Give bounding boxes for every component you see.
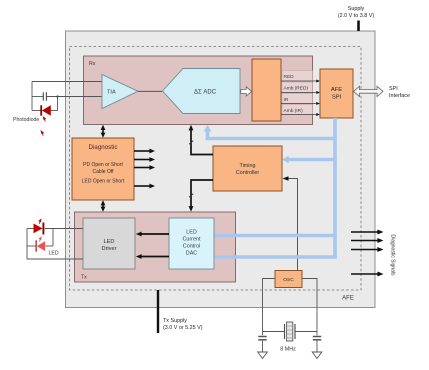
bus slash tick [189,141,193,145]
LED Current Control DAC block [169,218,214,269]
wire LED top rail [27,228,34,230]
svg-text:Photodiode: Photodiode [13,117,39,123]
wire timing to Rx [191,130,213,155]
Tx block [75,212,236,282]
blue arrow into ADC [204,125,212,132]
svg-text:Amb (IR): Amb (IR) [284,108,304,114]
wire photodiode right vertical [57,97,59,111]
wire Diagnostic to Tx double arrow [102,204,104,208]
svg-text:AFE: AFE [342,296,354,302]
svg-text:Diagnostic: Diagnostic [89,144,118,151]
op-amp TIA [102,75,138,109]
ground right [312,352,322,359]
register row IR [282,94,313,104]
svg-text:DAC: DAC [186,251,197,257]
wire TIA to ADC [138,90,163,92]
svg-text:(2.0 V to 3.8 V): (2.0 V to 3.8 V) [338,13,374,19]
svg-text:PD Open or Short: PD Open or Short [83,162,123,168]
register row Amb (RED) [282,82,313,93]
blue bus vertical [333,118,337,257]
svg-text:Interface: Interface [389,93,410,99]
svg-text:ΔΣ ADC: ΔΣ ADC [194,90,217,96]
Rx block [84,56,313,125]
Diagnostic block [72,138,134,200]
wire photodiode bottom lead [32,110,41,112]
svg-text:LED: LED [49,251,59,257]
node junction [56,95,58,97]
wire IR to SPI [281,103,318,105]
svg-text:Cable Off: Cable Off [92,169,114,175]
diagnostics signal arrow 4 [351,273,378,275]
diagnostics signal arrow 3 [351,249,378,251]
blue bus DAC branch 2 [215,255,337,259]
svg-text:Supply: Supply [348,6,365,12]
photodiode light arrows [41,117,45,136]
LED Driver block [83,218,135,269]
svg-text:AFE: AFE [331,87,342,93]
svg-text:Amb (RED): Amb (RED) [284,86,309,92]
chip outer boundary U1 [66,31,376,308]
diagnostic output arrow 2 [134,159,150,161]
AFE SPI block [320,69,353,118]
wire photodiode left vertical [31,82,33,111]
ADC block [163,69,241,114]
wire Rx to Diagnostic double arrow [102,129,104,134]
blue arrow into timing controller [282,156,289,164]
wire photodiode mid lead [32,96,43,98]
blue bus ADC branch [208,131,337,139]
bus slash tick [189,194,193,198]
wire LED left vertical [26,229,28,260]
wire C3 to ground [316,340,318,352]
svg-text:IR: IR [284,97,289,103]
wire LED right vertical [52,229,54,247]
OSC block [275,271,302,288]
svg-text:LED: LED [186,230,197,236]
wire Amb (IR) to SPI [281,114,318,116]
svg-text:Driver: Driver [102,246,117,252]
blue bus DAC branch 1 [215,234,337,238]
wire OSC right leg [302,279,317,336]
LED D3 (infrared) [36,240,45,251]
crystal X1 [285,322,296,341]
svg-text:LED: LED [104,239,115,245]
blue bus timing branch [287,158,337,162]
wire C2 to ground [262,340,264,352]
wire RED to SPI [281,80,318,82]
Timing Controller block [213,146,282,191]
wire LED mid lead [27,245,36,247]
diagnostic output arrow 4 [134,185,150,187]
wire Amb (RED) to SPI [281,92,318,94]
wire DAC to LED driver 1 [141,233,169,235]
LED D2 light arrows [39,219,41,224]
diagnostics signal arrow 1 [351,231,378,233]
capacitor C1 [42,92,44,100]
svg-text:Diagnostic Signals: Diagnostic Signals [390,234,396,276]
wire crystal horizontal [263,331,285,333]
wire Tx supply [157,290,159,333]
LED D2 (red) [34,223,44,235]
svg-text:Controller: Controller [236,170,260,176]
diagnostic output arrow 1 [134,150,150,152]
svg-text:Control: Control [183,244,200,250]
buffer stage [252,59,281,121]
wire photodiode top lead [32,81,102,83]
capacitor C2 [258,337,266,340]
svg-text:SPI: SPI [389,86,398,92]
ground left [258,352,268,359]
svg-text:Current: Current [183,237,201,243]
SPI interface double arrow [354,86,384,96]
wire OSC left leg [263,279,276,336]
register row Amb (IR) [282,105,313,115]
svg-text:Rx: Rx [89,61,96,67]
capacitor C3 [313,337,321,340]
diagnostic output arrow 3 [134,167,150,169]
svg-text:Timing: Timing [240,163,256,169]
svg-text:Tx: Tx [81,275,87,281]
LED D3 light arrows [39,237,41,242]
wire DAC to LED driver 2 [141,256,169,258]
AFE dashed boundary [70,47,362,291]
photodiode D1 [41,105,51,115]
diagnostics signal arrow 2 [351,240,378,242]
wire OSC to timing controller [288,179,298,272]
register row RED [282,71,313,82]
wire timing to Tx [191,180,213,207]
svg-text:Tx Supply: Tx Supply [163,318,187,324]
wire LED bottom rail [27,258,83,260]
svg-text:LED Open or Short: LED Open or Short [82,179,125,185]
svg-text:TIA: TIA [107,90,116,96]
svg-text:OSC: OSC [283,277,294,283]
svg-text:8 MHz: 8 MHz [280,347,296,353]
svg-text:(3.0 V or 5.25 V): (3.0 V or 5.25 V) [163,325,203,331]
block arrow ADC to buffer [241,87,252,96]
svg-text:SPI: SPI [332,95,342,101]
svg-text:RED: RED [284,74,295,80]
wire supply to chip [357,21,360,32]
